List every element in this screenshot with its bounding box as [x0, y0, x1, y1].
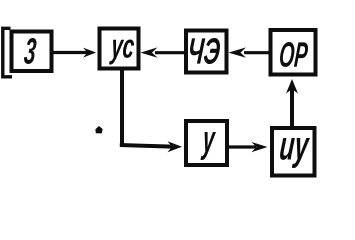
block УС	[100, 29, 139, 69]
arrowhead into ИУ	[252, 142, 268, 152]
wire ЧЭ to УС	[155, 51, 186, 54]
arrowhead into ОР bottom	[286, 79, 298, 94]
arrowhead into У	[168, 141, 183, 152]
block ЧЭ	[186, 31, 227, 73]
wire ОР to ЧЭ	[244, 51, 270, 54]
arrowhead into УС	[83, 48, 96, 58]
wire З to УС	[52, 51, 88, 54]
wire across to У	[120, 145, 172, 147]
block У	[186, 121, 227, 165]
wire У to ИУ	[227, 145, 256, 148]
arrowhead into УС right side	[141, 47, 158, 57]
wire УС down	[120, 68, 124, 146]
cropped box fragment (left bracket)	[3, 28, 12, 77]
block З	[12, 32, 52, 72]
wire ИУ up to ОР	[290, 88, 294, 128]
block ИУ	[272, 128, 315, 176]
mark dot	[95, 126, 102, 133]
block ОР	[271, 30, 316, 75]
arrowhead into ЧЭ	[229, 47, 247, 57]
